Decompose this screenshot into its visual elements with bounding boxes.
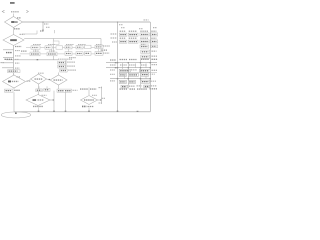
- process box row2-6: [95, 52, 103, 56]
- band row2 rail: [20, 53, 103, 55]
- right box y85 a: [121, 85, 128, 88]
- wire right return x150: [149, 22, 151, 112]
- junction tick on rail: [37, 59, 39, 60]
- process box row1-6: [85, 45, 92, 48]
- junction dots right grid: [117, 62, 118, 63]
- label x110 y38: [111, 37, 118, 39]
- right text y69: [152, 69, 158, 71]
- text row above D7 b: [90, 88, 97, 90]
- left text y62: [1, 62, 5, 64]
- box under D5 text a: [58, 90, 64, 92]
- col3 text 1: [67, 61, 75, 63]
- wire box to D6: [38, 92, 40, 95]
- band row2 left label: [21, 50, 27, 52]
- wire D5 down: [58, 85, 60, 89]
- D7 label top: [92, 94, 97, 96]
- process box col3-1: [58, 61, 65, 64]
- right grid rail y62: [106, 62, 157, 64]
- arrowhead D6 right: [53, 99, 54, 100]
- wire drop x101: [100, 39, 102, 55]
- right text y80: [151, 80, 157, 82]
- D6 text: [38, 99, 45, 101]
- band row1 label c: [66, 44, 74, 46]
- right grid cell text b: [110, 69, 115, 71]
- right row0 label 2: [129, 30, 137, 32]
- right row3 box 4: [151, 40, 158, 43]
- label x119: [119, 24, 123, 26]
- arrowhead D4 to D5: [49, 79, 50, 80]
- tick above box: [46, 86, 48, 88]
- mark x27: [26, 10, 28, 12]
- bottom text row c: [137, 88, 148, 90]
- wire D3 to box: [13, 88, 15, 89]
- right row0 label 1: [120, 30, 126, 32]
- right row6 box: [141, 55, 150, 58]
- right row0 label 4: [151, 30, 156, 32]
- D1 text: [11, 21, 14, 23]
- right row4 box a: [140, 45, 149, 48]
- left dark dash y52: [6, 52, 12, 54]
- band row1 label b: [48, 44, 55, 46]
- right text y73: [150, 73, 155, 75]
- process box row1-5: [76, 46, 83, 49]
- arrow into terminator: [15, 113, 17, 114]
- D6 arrow right: [50, 99, 54, 101]
- vertical x122: [122, 63, 124, 70]
- left stub y67: [2, 67, 14, 69]
- text row above D7 a: [80, 88, 88, 90]
- col3 text 3: [68, 69, 76, 71]
- tick x37: [36, 31, 38, 35]
- right grid text y59 d: [141, 58, 149, 60]
- text below x43 arrow: [40, 30, 44, 32]
- junction dot y22 x117: [117, 22, 118, 23]
- left text y50: [15, 50, 20, 52]
- title text: [10, 2, 15, 4]
- col3 spine: [65, 60, 67, 73]
- right row6 label: [152, 55, 158, 57]
- D7 arrow right: [98, 99, 102, 101]
- left stub y62: [2, 62, 14, 64]
- right dark box y69 a: [119, 69, 130, 72]
- D7 arrow label: [102, 97, 106, 99]
- band row1 label d: [78, 44, 86, 46]
- label near node A: [11, 11, 19, 13]
- process box under D3: [5, 89, 14, 92]
- D4 text: [35, 78, 43, 80]
- label above rail corner: [144, 19, 149, 21]
- right grid rail y78: [110, 78, 150, 80]
- band tick a: [35, 49, 37, 52]
- band tick c: [68, 49, 70, 52]
- right box y73 a: [119, 73, 126, 76]
- right row4 box b: [151, 45, 158, 48]
- D1 label right: [17, 17, 21, 19]
- right row1 box 3: [140, 33, 149, 36]
- right row1 box 4: [151, 33, 158, 36]
- right row3 box 2: [128, 40, 138, 43]
- right row2 label 3: [140, 37, 148, 39]
- band tick b: [51, 49, 53, 52]
- process box beside D4: [44, 88, 50, 91]
- decision D6: [26, 95, 50, 106]
- D3 label top: [17, 76, 21, 78]
- left text y46: [15, 46, 22, 48]
- right grid text y64 c: [129, 64, 136, 66]
- process box under D4: [36, 89, 43, 92]
- left text y59: [5, 58, 13, 60]
- right grid cell text a: [131, 69, 137, 71]
- D6 label top: [42, 94, 47, 96]
- wire into D1: [13, 14, 15, 17]
- arrowhead D7 right: [100, 99, 101, 100]
- right grid cell text d: [110, 80, 115, 82]
- left text y63: [15, 62, 20, 64]
- process box row2-3: [65, 52, 72, 56]
- vertical x140: [140, 59, 142, 89]
- band row2 label a: [33, 50, 39, 52]
- rail y59.5: [6, 59, 58, 61]
- left text y55: [15, 55, 21, 57]
- D2 text: [10, 39, 17, 41]
- right grid text y59 c: [129, 59, 137, 61]
- bottom text row b: [130, 88, 136, 90]
- left stub y57: [3, 57, 14, 59]
- tick above box a: [38, 86, 40, 89]
- wire D6 down: [38, 107, 40, 111]
- process box row2-2: [47, 52, 57, 56]
- wire spine to terminator: [13, 92, 15, 112]
- label x153: [153, 27, 157, 29]
- right row3 box 3: [140, 40, 149, 43]
- box under D5 text b: [65, 90, 71, 92]
- process box row2-5: [85, 52, 92, 56]
- right box y80 c: [141, 80, 150, 83]
- D3 label right: [27, 80, 32, 82]
- wire long drop x117: [117, 22, 119, 112]
- left text y59 b: [15, 58, 19, 60]
- decision D1: [5, 17, 23, 28]
- process box under D5: [57, 89, 72, 92]
- right grid rail y72: [119, 71, 157, 73]
- label x112 y42: [112, 41, 117, 43]
- right text y85 b: [151, 85, 157, 87]
- right row4 superscript a: [141, 43, 146, 45]
- D7 text: [84, 99, 95, 101]
- wire x65 down: [65, 92, 67, 112]
- wire lineB: [24, 38, 101, 40]
- right row5 box: [141, 50, 150, 53]
- D4 arrow right: [47, 78, 50, 81]
- wire D3 to D4: [26, 80, 30, 82]
- node A bracket: [2, 10, 4, 13]
- vertical x128: [127, 63, 129, 89]
- D4 label above: [38, 72, 44, 74]
- right row1 box 2: [128, 33, 138, 36]
- band row1 label e: [96, 44, 103, 46]
- right box y80 a: [119, 80, 126, 83]
- tick on bottom rail: [137, 111, 139, 112]
- process box col3-3: [60, 69, 67, 72]
- right grid rail y67: [106, 67, 150, 69]
- D1 text below: [14, 28, 20, 30]
- col3 label top: [58, 58, 72, 60]
- process box x53: [53, 41, 59, 44]
- decision D2: [3, 35, 24, 46]
- process box row2-4: [76, 52, 83, 56]
- band tick d: [98, 49, 100, 52]
- right row5 label: [152, 50, 157, 52]
- D7 below text: [88, 106, 95, 108]
- right grid tick x146: [145, 63, 147, 67]
- arrowhead into x117 rail y62: [115, 62, 117, 63]
- terminator ellipse: [1, 112, 31, 118]
- bottom rail: [14, 111, 150, 113]
- process box row1-1: [31, 46, 40, 49]
- D3 text dark: [8, 81, 11, 83]
- right grid cell text c: [110, 73, 115, 75]
- right row2 label 1: [120, 37, 126, 39]
- wire top rail: [23, 21, 151, 23]
- right grid tick x146b: [145, 76, 147, 79]
- left text y68: [15, 67, 20, 69]
- right grid tick x124: [124, 75, 126, 79]
- D5 text: [54, 79, 63, 81]
- right grid text y64 a: [110, 64, 116, 66]
- wire x54 down: [53, 91, 55, 112]
- D6 text below: [33, 105, 43, 107]
- D2 label right: [20, 33, 25, 35]
- wire D7 down: [88, 108, 90, 112]
- label x121: [121, 27, 125, 29]
- tick x54: [54, 30, 56, 33]
- text below band: [69, 57, 76, 59]
- right grid text y59 b: [120, 59, 128, 61]
- right grid cell text f: [137, 85, 142, 87]
- left spine: [13, 46, 15, 76]
- process box row2-1: [30, 52, 40, 56]
- process box row1-4: [65, 46, 72, 49]
- right grid cell text e: [141, 64, 147, 66]
- band row1 label a: [33, 44, 41, 46]
- decision D3: [3, 75, 26, 88]
- right row3 box 1: [119, 40, 127, 43]
- col3 text 2: [67, 65, 75, 67]
- arrow dots on bottom rail: [38, 111, 40, 112]
- right text y85 a: [129, 85, 135, 87]
- right row2 label 4: [151, 37, 156, 39]
- D3 text: [12, 80, 19, 82]
- bottom text row a: [120, 88, 128, 90]
- right dark box y69 b: [140, 69, 151, 72]
- junction dot y22 x43: [42, 22, 43, 23]
- process box y70: [8, 70, 21, 73]
- label right of x101 a: [103, 45, 110, 47]
- process box row1-7: [95, 45, 103, 48]
- D7 below text dark: [82, 105, 87, 107]
- band row1 rail: [26, 47, 103, 49]
- right row1 box 1: [119, 33, 127, 36]
- right grid text y64 d: [152, 64, 158, 66]
- right grid tick x135: [135, 63, 137, 67]
- left stub y49: [3, 49, 14, 51]
- label below x101 segment: [99, 102, 103, 104]
- right grid text y59 a: [110, 59, 116, 61]
- wire x101 segment: [101, 87, 103, 105]
- label right of x101 b: [102, 49, 108, 51]
- wire drop x43: [42, 22, 44, 31]
- bottom text row d: [150, 88, 158, 90]
- right box y85 b: [144, 85, 150, 88]
- wire D1 to D2: [13, 28, 15, 35]
- D6 text dark: [33, 99, 37, 101]
- wire lineA: [22, 33, 37, 35]
- decision D4: [31, 74, 47, 84]
- right row0 label 3: [140, 30, 148, 32]
- arrowhead x43 drop: [42, 30, 43, 31]
- wire D4 down: [38, 84, 40, 89]
- text right of box under D3: [14, 89, 20, 91]
- process box row1-2: [45, 46, 52, 49]
- right grid text y64 b: [120, 64, 127, 66]
- label above x101 segment: [99, 87, 103, 89]
- right grid text y59 e: [152, 58, 158, 60]
- label x46: [46, 26, 50, 28]
- right box y73 c: [141, 73, 149, 76]
- label right of x101 c: [103, 52, 110, 54]
- process box row1-3: [56, 46, 63, 49]
- wire into D5: [58, 73, 60, 76]
- wire drop x53: [53, 39, 55, 60]
- text right of box under D5: [73, 89, 78, 91]
- band row2 label b: [49, 50, 55, 52]
- decision D7: [81, 96, 98, 105]
- decision D5: [50, 75, 67, 85]
- D7 stub: [88, 87, 90, 95]
- right box y80 b: [128, 80, 135, 83]
- right row2 label 2: [129, 37, 137, 39]
- label x44: [44, 23, 49, 25]
- process box col3-2: [58, 65, 65, 68]
- right box y73 b: [128, 73, 138, 76]
- label x110 y34: [111, 33, 118, 35]
- label x139: [139, 28, 143, 30]
- arrowhead into x117 rail y67: [115, 67, 117, 68]
